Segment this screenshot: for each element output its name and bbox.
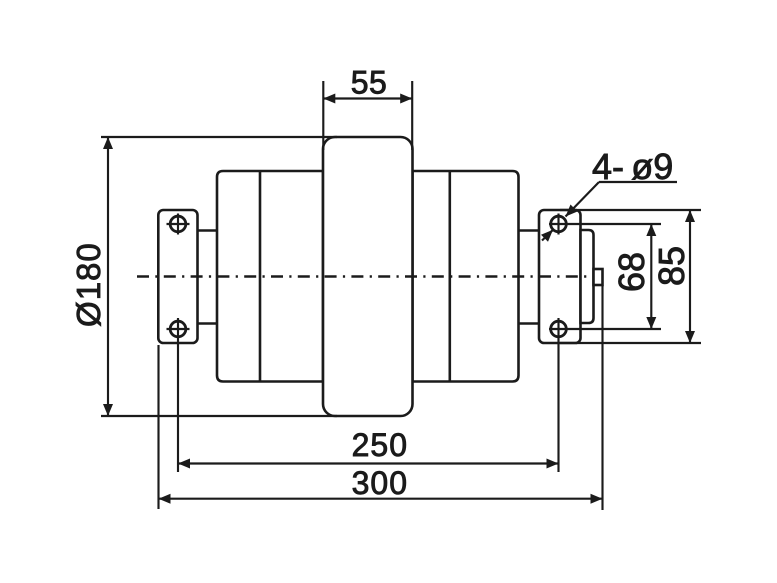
- dim 55 arrow right: [400, 94, 412, 104]
- label 4-d9 underline: [599, 181, 677, 183]
- dim 55 extension left: [322, 81, 324, 150]
- dim 55 line: [323, 97, 412, 99]
- dim 180 line: [107, 137, 109, 416]
- dim 180 arrow top: [103, 137, 113, 149]
- dim 300 arrow left: [159, 494, 171, 504]
- label 4-d9 lower tail: [542, 229, 554, 240]
- dim 180 extension top: [101, 136, 337, 138]
- dim 250 extension right: [557, 340, 559, 473]
- svg-text:300: 300: [352, 465, 408, 501]
- svg-text:68: 68: [611, 252, 652, 292]
- dim 85 arrow top: [685, 210, 695, 222]
- dim 250 line: [178, 462, 559, 464]
- bolt hole top-right: [551, 214, 567, 235]
- dim 68 extension top: [549, 223, 661, 225]
- svg-text:85: 85: [651, 246, 692, 286]
- left flange bracket: [158, 210, 197, 343]
- right cylinder section: [413, 171, 519, 382]
- bolt hole top-left: [167, 214, 190, 235]
- dim 180 extension bottom: [101, 415, 337, 417]
- dim 300 line: [159, 498, 603, 500]
- svg-text:250: 250: [352, 427, 408, 463]
- dim 68 arrow top: [646, 224, 656, 236]
- label 4-d9 leader: [566, 182, 600, 217]
- label 4-d9 leader arrow upper: [566, 205, 578, 217]
- dim 180 arrow bottom: [103, 404, 113, 416]
- dim 250 extension left: [177, 340, 179, 473]
- dim 55 arrow left: [323, 94, 335, 104]
- dim 85 line: [689, 210, 691, 343]
- left shaft hub: [196, 231, 218, 324]
- right cylinder division line: [448, 171, 451, 382]
- right notch boss: [594, 269, 603, 285]
- left cylinder section: [217, 171, 323, 382]
- svg-text:Ø180: Ø180: [70, 242, 107, 327]
- axis centerline: [137, 275, 588, 277]
- dim 250 arrow left: [178, 459, 190, 469]
- dim 300 extension left: [157, 345, 159, 509]
- svg-text:55: 55: [351, 65, 388, 101]
- center drum: [323, 137, 413, 416]
- dim 250 arrow right: [547, 459, 559, 469]
- left cylinder division line: [259, 171, 262, 382]
- dim 85 extension bottom: [560, 342, 701, 344]
- dim 68 arrow bottom: [646, 317, 656, 329]
- dim 85 extension top: [560, 209, 701, 211]
- dim 55 extension right: [411, 81, 413, 150]
- label 4-d9 leader arrow lower: [541, 230, 553, 242]
- bolt hole bottom-right: [551, 318, 567, 340]
- bolt hole bottom-left: [167, 318, 190, 340]
- dim 68 line: [650, 224, 652, 329]
- dim 300 extension right: [601, 285, 603, 510]
- dim 300 arrow right: [591, 494, 603, 504]
- right inner plate: [581, 230, 594, 323]
- right shaft hub: [518, 231, 541, 324]
- dim 85 arrow bottom: [685, 331, 695, 343]
- right flange bracket: [539, 210, 581, 343]
- dim 68 extension bottom: [549, 328, 661, 330]
- svg-text:4- ø9: 4- ø9: [592, 146, 673, 187]
